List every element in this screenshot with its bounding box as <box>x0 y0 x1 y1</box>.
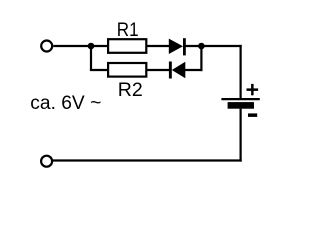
diode D1 cathode bar <box>183 38 186 55</box>
wire: R2 to D2 <box>146 69 169 71</box>
battery BT1 positive plate <box>221 98 259 100</box>
battery BT1 negative plate (thick) <box>228 102 254 109</box>
diode D2 cathode bar (pointing left) <box>169 62 172 79</box>
svg-text:R1: R1 <box>117 20 139 41</box>
wire: bottom return to J2 <box>53 159 242 161</box>
diode D1 (anode triangle, pointing right) <box>169 39 183 54</box>
diode D2 anode triangle <box>172 62 186 79</box>
wire: D2 to node B riser <box>185 69 203 71</box>
resistor R1 <box>108 39 146 53</box>
wire: node A down <box>90 46 92 70</box>
wire: D1 to node B to corner <box>186 45 242 47</box>
resistor R2 <box>108 63 146 77</box>
wire: node B down to D2 branch <box>200 46 202 71</box>
node B (junction dot) <box>198 43 205 50</box>
svg-text:R2: R2 <box>118 80 143 101</box>
label + (plus sign) <box>247 84 259 95</box>
terminal J2 (bottom-left) <box>41 156 52 167</box>
label - (minus sign) <box>248 113 257 117</box>
wire: node B corner down to battery <box>240 45 242 99</box>
wire: battery to bottom corner <box>240 109 242 162</box>
wire: R1 to D1 <box>146 45 169 47</box>
node A (junction dot) <box>88 43 95 50</box>
wire: to R2 <box>90 69 109 71</box>
svg-text:ca. 6V ~: ca. 6V ~ <box>30 93 101 114</box>
terminal J1 (top-left input) <box>41 41 52 52</box>
wire: J1 to node A to R1 <box>53 45 108 47</box>
